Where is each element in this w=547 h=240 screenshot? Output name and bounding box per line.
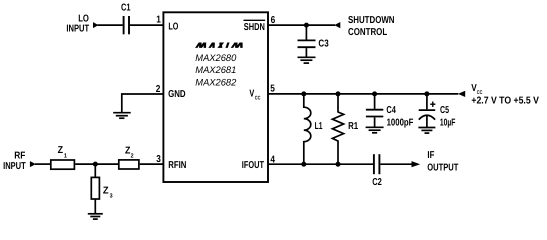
svg-text:IFOUT: IFOUT <box>242 160 264 171</box>
svg-text:C5: C5 <box>440 105 449 116</box>
svg-text:CONTROL: CONTROL <box>348 27 387 38</box>
wire C3 to ground <box>305 48 307 57</box>
capacitor C1 <box>124 16 129 34</box>
svg-text:6: 6 <box>271 15 276 26</box>
svg-text:SHUTDOWN: SHUTDOWN <box>348 15 395 26</box>
op-amp U1 MAX2680 IC body <box>163 12 268 182</box>
arrow IF output <box>412 161 421 167</box>
wire pin 2 to ground <box>122 94 164 112</box>
svg-text:OUTPUT: OUTPUT <box>427 162 458 173</box>
capacitor C4 <box>366 110 383 117</box>
svg-text:MAX2680: MAX2680 <box>195 53 237 64</box>
svg-text:LO: LO <box>168 22 178 33</box>
junction node C3/SHDN <box>304 23 309 28</box>
svg-text:GND: GND <box>168 89 186 100</box>
svg-text:RFIN: RFIN <box>168 160 186 171</box>
ground (Z3) <box>88 214 103 219</box>
junction node R1 bottom <box>336 162 341 167</box>
wire LO input to C1 <box>98 24 123 26</box>
svg-text:INPUT: INPUT <box>3 161 26 172</box>
junction node L1 top <box>301 91 306 96</box>
inductor L1 <box>304 94 311 164</box>
svg-text:INPUT: INPUT <box>66 24 89 35</box>
resistor R1 <box>332 94 343 164</box>
svg-text:Z: Z <box>103 186 109 197</box>
junction node Z1/Z2/Z3 <box>93 162 98 167</box>
svg-text:C2: C2 <box>372 177 382 188</box>
junction node C5 top <box>424 91 429 96</box>
wire C3 stem top <box>305 25 307 39</box>
svg-text:RF: RF <box>14 150 25 161</box>
svg-text:Z: Z <box>58 145 63 156</box>
junction node L1 bottom <box>301 162 306 167</box>
wire C4 to ground <box>374 117 376 126</box>
wire Z1 to Z2 with node <box>75 163 118 165</box>
ground (pin 2) <box>113 113 131 119</box>
wire RF input to Z1 <box>35 163 50 165</box>
capacitor C2 <box>374 154 380 174</box>
arrow shutdown control <box>334 22 340 28</box>
svg-text:C4: C4 <box>386 105 396 116</box>
svg-text:Z: Z <box>125 145 130 156</box>
svg-text:4: 4 <box>270 154 275 165</box>
resistor Z2 <box>119 160 139 169</box>
svg-text:C3: C3 <box>318 39 329 50</box>
ground (C3) <box>298 57 316 63</box>
wire C5 stem top <box>426 94 428 109</box>
arrow RF input <box>30 161 36 167</box>
wire C2 to IF output <box>380 163 412 165</box>
resistor Z1 <box>51 160 75 169</box>
wire Z3 to ground <box>94 199 96 213</box>
svg-text:MAX2682: MAX2682 <box>195 78 237 89</box>
junction node C4 top <box>372 91 377 96</box>
resistor Z3 <box>91 177 99 199</box>
svg-text:3: 3 <box>156 154 161 165</box>
svg-text:5: 5 <box>270 84 275 95</box>
wire Vcc rail pin 5 <box>268 93 458 95</box>
arrow Vcc supply <box>458 91 465 97</box>
svg-text:CC: CC <box>255 95 261 101</box>
svg-text:+2.7 V TO +5.5 V: +2.7 V TO +5.5 V <box>471 96 539 107</box>
ground (C5) <box>418 128 435 134</box>
wire pin 6 to shutdown control <box>268 24 335 26</box>
capacitor C5 polarized <box>419 110 436 120</box>
svg-text:L1: L1 <box>315 121 323 132</box>
wire node to Z3 <box>94 164 96 177</box>
wire Z2 to pin 3 <box>140 163 164 165</box>
arrow LO input <box>93 22 99 28</box>
svg-text:SHDN: SHDN <box>244 22 265 33</box>
capacitor C3 <box>298 40 316 47</box>
wire IF rail pin 4 <box>268 163 373 165</box>
svg-text:1000pF: 1000pF <box>387 117 414 128</box>
svg-text:IF: IF <box>427 150 434 161</box>
wire C1 to pin 1 <box>130 24 164 26</box>
svg-text:10µF: 10µF <box>440 117 456 128</box>
wire C4 stem top <box>374 94 376 109</box>
wire C5 to ground <box>426 116 428 128</box>
svg-text:C1: C1 <box>121 3 131 14</box>
junction node R1 top <box>336 91 341 96</box>
svg-text:MAX2681: MAX2681 <box>195 65 236 76</box>
svg-text:V: V <box>249 89 254 100</box>
C5 plus sign <box>430 102 435 107</box>
ground (C4) <box>366 127 384 133</box>
svg-text:R1: R1 <box>348 121 358 132</box>
svg-text:1: 1 <box>156 15 161 26</box>
svg-text:2: 2 <box>156 84 161 95</box>
